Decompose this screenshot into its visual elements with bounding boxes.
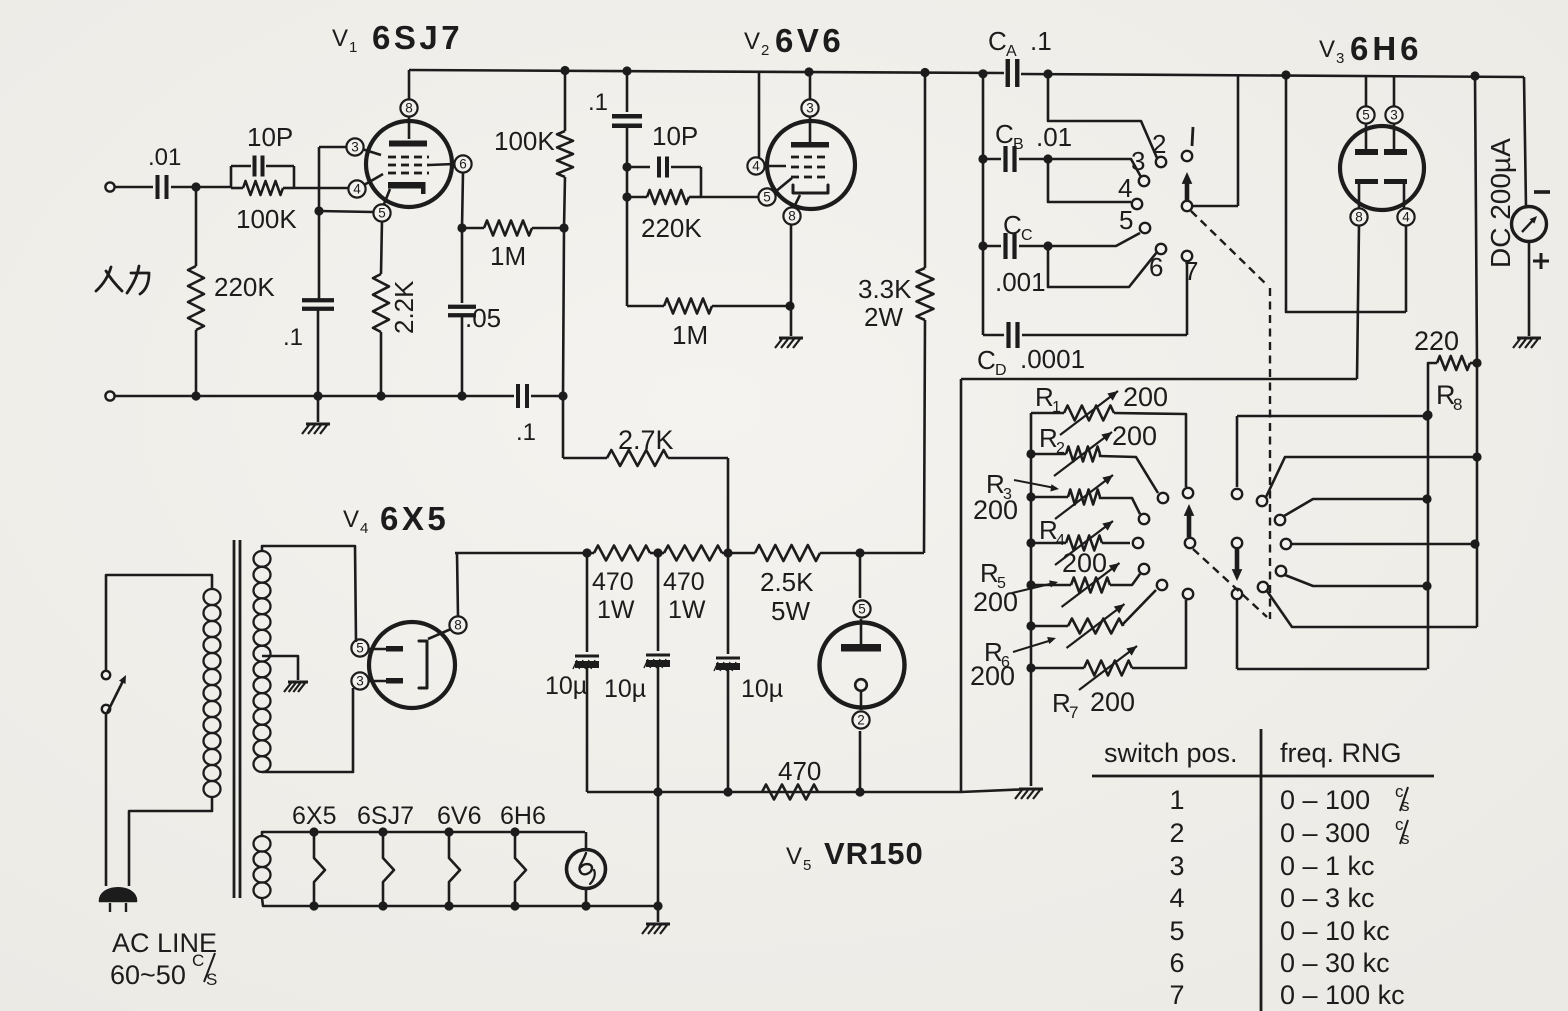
svg-text:4: 4 [360,520,368,537]
svg-text:R: R [1052,688,1071,718]
svg-text:.001: .001 [995,267,1046,297]
svg-text:C: C [995,119,1014,149]
svg-text:220K: 220K [641,213,702,243]
svg-text:.01: .01 [1036,122,1072,152]
svg-text:.0001: .0001 [1020,344,1085,374]
svg-text:200: 200 [1062,548,1107,578]
svg-text:6: 6 [459,157,467,172]
svg-text:3: 3 [356,674,364,689]
svg-text:3: 3 [806,101,814,116]
svg-text:2: 2 [761,42,769,59]
svg-text:8: 8 [405,101,413,116]
svg-text:3: 3 [1131,146,1145,176]
svg-text:6V6: 6V6 [775,22,844,59]
svg-text:60~50: 60~50 [110,960,186,990]
svg-text:V: V [343,506,359,533]
svg-text:V: V [332,25,348,52]
svg-text:6X5: 6X5 [292,802,336,830]
svg-text:5: 5 [1169,916,1184,946]
svg-text:C: C [977,345,996,375]
svg-text:5: 5 [356,641,364,656]
svg-text:0 – 100 kc: 0 – 100 kc [1280,980,1405,1010]
svg-text:220K: 220K [214,272,275,302]
svg-text:4: 4 [1169,883,1184,913]
svg-text:7: 7 [1184,256,1198,286]
svg-text:10µ: 10µ [545,672,587,700]
svg-text:R: R [1039,515,1058,545]
svg-text:5: 5 [803,857,811,874]
svg-text:s: s [1401,829,1410,848]
svg-text:10P: 10P [247,122,293,152]
svg-text:4: 4 [1056,532,1065,549]
svg-text:2W: 2W [864,302,903,332]
svg-text:C: C [1021,227,1033,244]
svg-text:8: 8 [1355,210,1363,225]
svg-text:200: 200 [970,661,1015,691]
svg-text:2: 2 [1152,129,1166,159]
svg-text:5: 5 [1362,108,1370,123]
svg-text:C: C [1003,210,1022,240]
svg-text:6H6: 6H6 [500,802,546,830]
svg-text:6: 6 [1149,252,1163,282]
svg-text:470: 470 [592,568,634,596]
svg-text:5: 5 [763,190,771,205]
svg-text:10µ: 10µ [604,675,646,703]
svg-text:6SJ7: 6SJ7 [372,19,463,56]
svg-text:switch pos.: switch pos. [1104,738,1238,768]
svg-text:1W: 1W [597,596,635,624]
svg-text:0 – 10 kc: 0 – 10 kc [1280,916,1390,946]
svg-text:3: 3 [1336,50,1344,67]
svg-text:0 – 1 kc: 0 – 1 kc [1280,851,1375,881]
svg-text:3: 3 [1390,108,1398,123]
svg-text:2: 2 [1056,440,1065,457]
svg-text:.1: .1 [588,89,608,116]
svg-text:4: 4 [353,182,361,197]
svg-text:8: 8 [1453,395,1462,414]
svg-text:.01: .01 [148,144,181,171]
svg-text:V: V [786,843,802,870]
svg-text:2.2K: 2.2K [389,280,419,334]
svg-text:1W: 1W [668,596,706,624]
svg-text:7: 7 [1069,703,1078,722]
svg-text:5: 5 [1119,205,1133,235]
svg-text:3: 3 [1169,851,1184,881]
svg-text:0 – 3 kc: 0 – 3 kc [1280,883,1375,913]
svg-text:.1: .1 [516,419,536,446]
svg-text:C: C [192,951,204,970]
svg-text:100K: 100K [236,204,297,234]
svg-text:3: 3 [351,140,359,155]
svg-text:6SJ7: 6SJ7 [357,802,414,830]
svg-text:DC 200µA: DC 200µA [1485,138,1516,268]
svg-text:B: B [1013,136,1024,153]
svg-text:R: R [1039,423,1058,453]
svg-text:S: S [206,970,217,989]
svg-text:C: C [988,26,1007,56]
svg-text:6H6: 6H6 [1350,30,1423,67]
svg-text:200: 200 [973,587,1018,617]
svg-text:200: 200 [973,495,1018,525]
svg-text:5: 5 [378,206,386,221]
svg-text:4: 4 [1402,210,1410,225]
svg-text:R: R [1035,382,1054,412]
svg-text:470: 470 [663,568,705,596]
svg-text:200: 200 [1123,382,1168,412]
svg-text:10µ: 10µ [741,675,783,703]
svg-text:2: 2 [1169,818,1184,848]
svg-text:470: 470 [778,756,821,786]
svg-text:100K: 100K [494,126,555,156]
svg-text:V: V [744,28,760,55]
svg-text:1M: 1M [490,241,526,271]
svg-text:10P: 10P [652,121,698,151]
svg-text:8: 8 [454,618,462,633]
svg-text:7: 7 [1169,980,1184,1010]
svg-text:VR150: VR150 [824,836,924,871]
svg-text:1: 1 [349,39,357,56]
svg-text:1M: 1M [672,320,708,350]
svg-text:6X5: 6X5 [380,500,449,537]
svg-text:6V6: 6V6 [437,802,481,830]
svg-text:0 – 30 kc: 0 – 30 kc [1280,948,1390,978]
svg-text:200: 200 [1090,687,1135,717]
svg-text:220: 220 [1414,326,1459,356]
svg-text:4: 4 [1118,173,1132,203]
svg-text:0 – 300: 0 – 300 [1280,818,1370,848]
svg-text:6: 6 [1169,948,1184,978]
svg-text:4: 4 [752,159,760,174]
svg-text:s: s [1401,796,1410,815]
svg-text:D: D [995,362,1007,379]
svg-text:2.5K: 2.5K [760,567,814,597]
svg-text:V: V [1319,36,1335,63]
svg-text:3.3K: 3.3K [858,274,912,304]
svg-text:1: 1 [1169,785,1184,815]
svg-text:.1: .1 [283,324,303,351]
svg-text:A: A [1006,43,1017,60]
svg-text:200: 200 [1112,421,1157,451]
svg-text:5W: 5W [771,596,810,626]
svg-text:.1: .1 [1030,26,1052,56]
svg-text:.05: .05 [465,303,501,333]
svg-text:1: 1 [1052,399,1061,416]
svg-text:R: R [980,558,999,588]
svg-text:0 – 100: 0 – 100 [1280,785,1370,815]
svg-text:freq. RNG: freq. RNG [1280,738,1402,768]
svg-text:5: 5 [858,602,866,617]
svg-text:2: 2 [857,713,865,728]
svg-text:2.7K: 2.7K [618,425,674,455]
svg-text:8: 8 [788,209,796,224]
